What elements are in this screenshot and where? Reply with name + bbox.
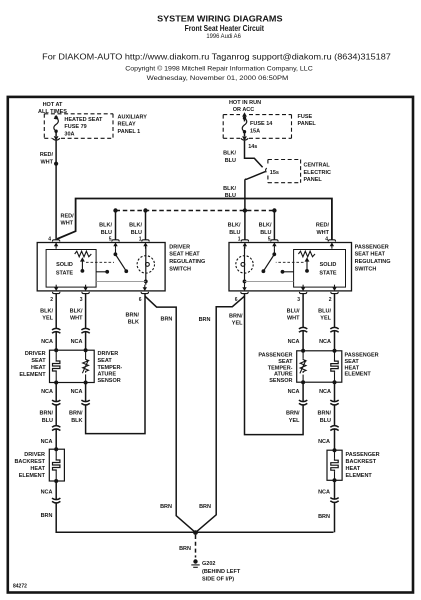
svg-text:BRN/: BRN/ xyxy=(40,411,54,417)
wire BLK/BLU fuse F14 to central electric panel xyxy=(245,141,263,167)
label BLU/WHT xyxy=(287,309,300,322)
svg-text:AUXILIARY: AUXILIARY xyxy=(118,115,148,121)
label BRN/BLU xyxy=(318,411,332,424)
svg-text:BACKREST: BACKREST xyxy=(346,459,377,465)
junction on bus at passenger pin 5 xyxy=(272,208,276,212)
svg-text:NCA: NCA xyxy=(319,389,331,395)
svg-text:BLU: BLU xyxy=(101,230,112,236)
passenger switch contact stub xyxy=(281,270,294,274)
svg-text:DRIVER: DRIVER xyxy=(98,351,119,357)
svg-text:SIDE OF I/P): SIDE OF I/P) xyxy=(202,576,234,582)
label FUSE 14 15A xyxy=(250,121,273,134)
svg-text:SEAT: SEAT xyxy=(31,358,46,364)
driver potentiometer resistor xyxy=(75,251,92,257)
svg-text:NCA: NCA xyxy=(41,389,53,395)
label DRIVER SEAT HEAT ELEMENT xyxy=(19,351,46,378)
svg-text:ATURE: ATURE xyxy=(274,372,293,378)
connector on BLK/YEL xyxy=(52,328,61,333)
svg-text:BRN: BRN xyxy=(41,513,53,519)
wire BRN to ground G202 (dashed) xyxy=(195,535,197,558)
svg-text:OR ACC: OR ACC xyxy=(233,107,255,113)
passenger potentiometer wiper arrow xyxy=(305,257,310,273)
passenger potentiometer resistor xyxy=(298,251,315,257)
svg-text:4: 4 xyxy=(48,236,51,242)
junction ground bus xyxy=(193,530,198,535)
wire RED/WHT bus to passenger switch pin 4 xyxy=(57,199,332,240)
driver seat heat regulating switch box xyxy=(37,243,165,291)
svg-text:BACKREST: BACKREST xyxy=(14,459,45,465)
svg-text:5: 5 xyxy=(109,236,112,242)
svg-text:NCA: NCA xyxy=(288,339,300,345)
svg-text:ATURE: ATURE xyxy=(98,372,117,378)
svg-text:DRIVER: DRIVER xyxy=(24,452,45,458)
svg-text:WHT: WHT xyxy=(70,316,83,322)
wire BLK/BLU central electric panel to BLK/BLU bus xyxy=(244,179,246,210)
svg-text:SWITCH: SWITCH xyxy=(355,266,377,272)
svg-text:Copyright © 1998 Mitchell Repa: Copyright © 1998 Mitchell Repair Informa… xyxy=(125,65,313,73)
svg-text:84272: 84272 xyxy=(13,584,27,590)
junction passenger element box bottom right xyxy=(333,380,337,384)
svg-text:NCA: NCA xyxy=(71,339,83,345)
wire BRN passenger pin 6 to ground junction xyxy=(196,296,245,532)
driver switch blade xyxy=(114,249,129,273)
svg-text:BRN/: BRN/ xyxy=(229,314,243,320)
svg-text:WHT: WHT xyxy=(287,316,300,322)
driver seat temperature sensor xyxy=(82,350,88,382)
driver solid state controller box xyxy=(46,250,96,288)
label RED/WHT (bus riser) xyxy=(61,214,75,227)
svg-text:REGULATING: REGULATING xyxy=(355,259,391,265)
svg-text:ELEMENT: ELEMENT xyxy=(19,372,46,378)
svg-text:DRIVER: DRIVER xyxy=(169,244,190,250)
junction driver backrest top xyxy=(54,447,58,451)
junction driver element box bottom left xyxy=(54,381,58,385)
label BLU/YEL xyxy=(318,309,331,322)
node HOT AT ALL TIMES xyxy=(38,102,67,115)
connector on BLU/YEL xyxy=(330,327,339,332)
svg-text:SEAT: SEAT xyxy=(345,359,360,365)
driver seat heat element xyxy=(53,350,60,382)
svg-text:REGULATING: REGULATING xyxy=(169,259,205,265)
svg-text:3: 3 xyxy=(80,297,83,303)
svg-text:BRN: BRN xyxy=(160,504,172,510)
junction passenger element box top right xyxy=(333,349,337,353)
driver backrest heat element xyxy=(53,449,60,481)
svg-text:Front Seat Heater Circuit: Front Seat Heater Circuit xyxy=(185,24,265,33)
svg-text:YEL: YEL xyxy=(232,321,243,327)
label BRN/BLK at driver pin 6 xyxy=(126,313,140,326)
junction passenger backrest top xyxy=(333,448,337,452)
svg-text:TEMPER-: TEMPER- xyxy=(268,365,293,371)
svg-text:HEAT: HEAT xyxy=(345,365,360,371)
fuse F79 exit notch xyxy=(52,138,60,140)
svg-text:BLK/: BLK/ xyxy=(129,223,142,229)
fuse panel dashed box xyxy=(223,115,291,139)
label FUSE PANEL xyxy=(298,114,317,127)
passenger indicator lamp xyxy=(236,247,253,285)
svg-text:NCA: NCA xyxy=(71,389,83,395)
svg-text:BLU: BLU xyxy=(131,230,142,236)
central electric panel dashed box xyxy=(268,160,301,183)
svg-text:PASSENGER: PASSENGER xyxy=(355,244,389,250)
svg-text:3: 3 xyxy=(297,297,300,303)
svg-text:SENSOR: SENSOR xyxy=(269,378,292,384)
connector on BRN/BLK xyxy=(81,400,90,405)
svg-text:FUSE 14: FUSE 14 xyxy=(250,121,273,127)
driver indicator lamp xyxy=(137,247,154,285)
svg-text:ELECTRIC: ELECTRIC xyxy=(304,170,332,176)
label RED/WHT passenger pin 4 xyxy=(316,223,330,236)
svg-text:HEAT: HEAT xyxy=(30,466,45,472)
wire BRN driver pin 6 to ground junction xyxy=(145,296,196,532)
svg-text:YEL: YEL xyxy=(320,316,331,322)
label BRN/BLK xyxy=(69,411,83,424)
svg-text:SEAT HEAT: SEAT HEAT xyxy=(169,252,200,258)
svg-text:HEAT: HEAT xyxy=(346,466,361,472)
svg-text:BRN: BRN xyxy=(199,504,211,510)
junction driver element box top left xyxy=(54,348,58,352)
label DRIVER SEAT HEAT REGULATING SWITCH xyxy=(169,244,205,272)
svg-text:SEAT HEAT: SEAT HEAT xyxy=(355,252,386,258)
svg-text:CENTRAL: CENTRAL xyxy=(304,163,331,169)
junction on bus at driver pin 5 xyxy=(113,208,117,212)
svg-text:SEAT: SEAT xyxy=(98,358,113,364)
svg-text:DRIVER: DRIVER xyxy=(25,351,46,357)
svg-text:YEL: YEL xyxy=(42,316,53,322)
svg-text:NCA: NCA xyxy=(318,439,330,445)
svg-text:BRN/: BRN/ xyxy=(286,411,300,417)
svg-text:2: 2 xyxy=(329,297,332,303)
svg-text:SYSTEM WIRING DIAGRAMS: SYSTEM WIRING DIAGRAMS xyxy=(157,13,283,23)
svg-text:ELEMENT: ELEMENT xyxy=(345,372,372,378)
svg-text:BLK: BLK xyxy=(71,418,82,424)
fuse F14 exit notch xyxy=(241,138,249,140)
svg-text:BLK/: BLK/ xyxy=(70,309,83,315)
passenger wiper-to-switch dashed link xyxy=(276,261,304,263)
label BLK/BLU driver pin 5 xyxy=(99,223,112,236)
svg-text:BRN/: BRN/ xyxy=(69,411,83,417)
svg-text:BLU: BLU xyxy=(260,230,271,236)
svg-text:BRN/: BRN/ xyxy=(318,411,332,417)
svg-text:NCA: NCA xyxy=(41,339,53,345)
svg-text:30A: 30A xyxy=(64,131,74,137)
wire BRN driver backrest to ground bus xyxy=(56,481,333,532)
junction on bus at driver pin 1 xyxy=(143,208,147,212)
passenger backrest heat element xyxy=(331,450,338,480)
passenger backrest heat element box xyxy=(327,450,342,480)
wire BLU/YEL passenger pin 2 to element xyxy=(334,294,336,351)
svg-text:PASSENGER: PASSENGER xyxy=(258,353,292,359)
svg-text:BLK/: BLK/ xyxy=(40,309,53,315)
driver lamp to solid state link xyxy=(96,280,146,282)
label AUXILIARY RELAY PANEL 1 xyxy=(118,115,148,135)
svg-text:STATE: STATE xyxy=(319,271,337,277)
junction driver backrest bottom xyxy=(54,479,58,483)
label BLK/WHT xyxy=(70,309,83,322)
svg-text:HEATED SEAT: HEATED SEAT xyxy=(64,117,103,123)
svg-text:NCA: NCA xyxy=(288,389,300,395)
svg-text:BRN: BRN xyxy=(318,514,330,520)
svg-text:SOLID: SOLID xyxy=(56,262,73,268)
wire BRN/YEL passenger pin 6 sensor return xyxy=(245,294,304,435)
svg-text:NCA: NCA xyxy=(41,490,53,496)
driver switch contact stub xyxy=(96,270,109,274)
svg-text:BLK/: BLK/ xyxy=(99,223,112,229)
svg-text:BLU: BLU xyxy=(320,418,331,424)
svg-text:G202: G202 xyxy=(202,561,215,567)
svg-text:YEL: YEL xyxy=(289,418,300,424)
wire BLK/WHT driver pin 3 to sensor xyxy=(85,294,87,351)
svg-text:BRN: BRN xyxy=(179,546,191,552)
label BRN/BLU xyxy=(40,411,54,424)
driver backrest heat element box xyxy=(49,449,64,481)
junction driver element box bottom right xyxy=(84,381,88,385)
svg-text:BLK/: BLK/ xyxy=(228,223,241,229)
svg-text:SWITCH: SWITCH xyxy=(169,266,191,272)
wire bus to driver pin 1 xyxy=(145,211,147,240)
label BRN/YEL at passenger pin 6 xyxy=(229,314,243,327)
svg-text:BLU/: BLU/ xyxy=(287,309,300,315)
junction driver element box top right xyxy=(84,348,88,352)
connector on BRN/BLU lower xyxy=(330,425,339,430)
wire BLK/YEL driver pin 2 to element xyxy=(55,294,57,351)
label CENTRAL ELECTRIC PANEL xyxy=(304,163,332,183)
svg-text:PANEL: PANEL xyxy=(304,177,323,183)
svg-text:BLK: BLK xyxy=(128,320,139,326)
driver potentiometer wiper arrow xyxy=(80,257,85,273)
svg-text:SOLID: SOLID xyxy=(320,262,337,268)
svg-text:HOT IN RUN: HOT IN RUN xyxy=(229,100,261,106)
label BLK/BLU passenger pin 5 xyxy=(259,223,272,236)
svg-text:BLU: BLU xyxy=(229,230,240,236)
junction passenger element box top left xyxy=(301,349,305,353)
label HEATED SEAT FUSE 79 30A xyxy=(64,117,103,137)
connector on BRN/BLU upper xyxy=(52,400,61,405)
passenger seat temperature sensor xyxy=(300,351,306,382)
svg-text:1: 1 xyxy=(238,236,241,242)
wire BRN/BLU passenger element to backrest xyxy=(334,382,336,450)
svg-text:BLU: BLU xyxy=(42,418,53,424)
junction passenger element box bottom left xyxy=(301,380,305,384)
svg-text:(BEHIND LEFT: (BEHIND LEFT xyxy=(202,569,241,575)
passenger solid state controller box xyxy=(294,250,346,288)
svg-text:NCA: NCA xyxy=(319,339,331,345)
svg-text:TEMPER-: TEMPER- xyxy=(98,365,123,371)
svg-text:1996 Audi A6: 1996 Audi A6 xyxy=(206,33,241,40)
wire bus to driver pin 5 xyxy=(115,211,117,240)
passenger switch blade xyxy=(262,249,277,273)
svg-text:BRN: BRN xyxy=(199,317,211,323)
svg-text:2: 2 xyxy=(50,297,53,303)
label PASSENGER SEAT TEMPERATURE SENSOR xyxy=(258,353,293,385)
svg-text:NCA: NCA xyxy=(41,439,53,445)
ground G202 xyxy=(191,559,199,567)
node HOT IN RUN OR ACC xyxy=(229,100,261,113)
label PASSENGER SEAT HEAT REGULATING SWITCH xyxy=(355,244,391,272)
relay contact 15s in central electric panel xyxy=(266,168,267,172)
svg-text:BLK/: BLK/ xyxy=(223,186,236,192)
connector on BRN/BLU upper xyxy=(330,400,339,405)
svg-text:BLU: BLU xyxy=(225,193,236,199)
svg-text:PANEL: PANEL xyxy=(298,121,317,127)
svg-text:WHT: WHT xyxy=(316,230,329,236)
svg-text:BLU/: BLU/ xyxy=(318,309,331,315)
svg-text:RED/: RED/ xyxy=(316,223,330,229)
label BRN/YEL below sensor xyxy=(286,411,300,424)
svg-text:SENSOR: SENSOR xyxy=(98,378,121,384)
relay switch blade xyxy=(245,172,265,180)
svg-text:NCA: NCA xyxy=(318,490,330,496)
svg-text:For DIAKOM-AUTO http://www.dia: For DIAKOM-AUTO http://www.diakom.ru Tag… xyxy=(42,52,391,62)
connector on BRN/YEL below sensor xyxy=(299,400,308,405)
label BLK/BLU (fuse to CEP) xyxy=(223,151,236,164)
svg-text:HOT AT: HOT AT xyxy=(43,102,63,108)
junction passenger backrest bottom xyxy=(333,478,337,482)
svg-text:PANEL 1: PANEL 1 xyxy=(118,129,141,135)
svg-text:BLU: BLU xyxy=(225,158,236,164)
passenger seat temperature sensor / heat element box xyxy=(297,351,342,382)
wire BLK/BLU dashed bus xyxy=(116,210,275,212)
svg-text:HEAT: HEAT xyxy=(31,365,46,371)
label DRIVER SEAT TEMPERATURE SENSOR xyxy=(98,351,123,384)
svg-text:PASSENGER: PASSENGER xyxy=(345,353,379,359)
wire RED/WHT fuse F79 to driver switch pin 4 xyxy=(55,141,57,240)
driver wiper-to-switch dashed link xyxy=(86,261,114,263)
svg-text:FUSE 79: FUSE 79 xyxy=(64,124,86,130)
connector on driver BRN xyxy=(52,498,61,503)
wire BRN/BLU driver element to backrest element xyxy=(55,383,57,450)
label BLK/BLU (CEP to bus) xyxy=(223,186,236,199)
passenger lamp to solid state link xyxy=(245,280,294,282)
wire BRN passenger backrest to ground bus xyxy=(334,480,336,532)
passenger seat heat element xyxy=(331,351,338,382)
auxiliary relay panel 1 dashed box xyxy=(44,114,113,139)
svg-text:RED/: RED/ xyxy=(61,214,75,220)
passenger seat heat regulating switch box xyxy=(229,243,352,291)
junction on bus at passenger pin 1 xyxy=(243,208,247,212)
svg-text:BRN: BRN xyxy=(160,317,172,323)
label PASSENGER SEAT HEAT ELEMENT xyxy=(345,353,379,378)
svg-text:1: 1 xyxy=(139,236,142,242)
svg-text:WHT: WHT xyxy=(40,159,53,165)
svg-text:RED/: RED/ xyxy=(40,152,54,158)
label BLK/BLU driver pin 1 xyxy=(129,223,142,236)
svg-text:STATE: STATE xyxy=(56,271,74,277)
fuse F14 15A xyxy=(242,112,247,141)
svg-text:RELAY: RELAY xyxy=(118,122,136,128)
label G202 (BEHIND LEFT SIDE OF I/P) xyxy=(202,561,241,583)
wire bus to passenger pin 1 xyxy=(244,211,246,240)
svg-text:ELEMENT: ELEMENT xyxy=(19,473,46,479)
fuse F79 HEATED SEAT 30A xyxy=(54,115,59,141)
wire BLU/WHT passenger pin 3 to sensor xyxy=(302,294,304,351)
svg-text:PASSENGER: PASSENGER xyxy=(346,452,380,458)
driver seat heat element / temperature sensor box xyxy=(50,350,95,382)
svg-text:BLK/: BLK/ xyxy=(223,151,236,157)
splice on RED/WHT wire xyxy=(54,162,58,166)
svg-text:WHT: WHT xyxy=(61,221,74,227)
svg-text:Wednesday, November 01, 2000: Wednesday, November 01, 2000 06:50PM xyxy=(147,75,289,82)
svg-text:ELEMENT: ELEMENT xyxy=(346,473,373,479)
svg-text:BRN/: BRN/ xyxy=(126,313,140,319)
svg-text:15s: 15s xyxy=(270,170,279,176)
svg-text:FUSE: FUSE xyxy=(298,114,313,120)
connector on BLU/WHT xyxy=(299,327,308,332)
label BLK/BLU passenger pin 1 xyxy=(228,223,241,236)
connector on passenger BRN xyxy=(330,498,339,503)
connector on BRN/BLU lower xyxy=(52,425,61,430)
connector on BLK/WHT xyxy=(81,328,90,333)
label DRIVER BACKREST HEAT ELEMENT xyxy=(14,452,45,479)
label PASSENGER BACKREST HEAT ELEMENT xyxy=(346,452,380,479)
wire BRN/BLK driver sensor return xyxy=(86,294,145,434)
svg-text:SEAT: SEAT xyxy=(278,359,293,365)
svg-text:6: 6 xyxy=(139,297,142,303)
label RED/WHT xyxy=(40,152,54,165)
wire bus to passenger pin 5 xyxy=(273,211,275,240)
svg-text:15A: 15A xyxy=(250,129,260,135)
svg-text:BLK/: BLK/ xyxy=(259,223,272,229)
svg-text:14s: 14s xyxy=(248,144,257,150)
label BLK/YEL xyxy=(40,309,53,322)
